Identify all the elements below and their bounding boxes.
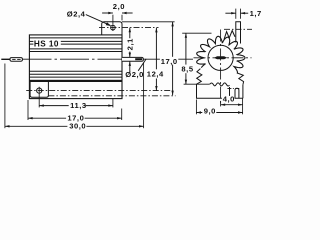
svg-text:Ø2,4: Ø2,4 bbox=[67, 10, 86, 19]
svg-text:12,4: 12,4 bbox=[147, 69, 164, 78]
vertical centerline bbox=[220, 30, 222, 105]
dim 30,0 bottom bbox=[4, 64, 6, 129]
top tab bbox=[102, 22, 122, 35]
thick base band bbox=[29, 80, 122, 82]
fin lines bbox=[29, 37, 122, 39]
hole centerline A bbox=[26, 90, 172, 92]
dim 11,3 bbox=[38, 99, 40, 108]
resistor body outline (side view) bbox=[29, 35, 122, 99]
dim 17,0 vertical bbox=[172, 22, 174, 57]
finned profile teeth ring bbox=[197, 36, 245, 73]
bottom face bbox=[196, 97, 243, 99]
end view tab bbox=[236, 22, 241, 44]
right lead bbox=[122, 57, 143, 61]
mounting slot bbox=[235, 88, 239, 98]
dim 9,0 bbox=[195, 100, 197, 115]
end tab centerline bbox=[224, 28, 252, 30]
slot centerline bbox=[227, 87, 239, 89]
dim 17,0 bottom bbox=[27, 100, 29, 120]
svg-text:HS 10: HS 10 bbox=[34, 40, 59, 49]
left lower teeth wedge bbox=[197, 69, 202, 85]
svg-text:4,0: 4,0 bbox=[223, 95, 235, 104]
svg-text:9,0: 9,0 bbox=[204, 107, 216, 116]
mounting pocket bbox=[30, 82, 48, 97]
svg-text:Ø2,0: Ø2,0 bbox=[125, 70, 144, 79]
core circle bbox=[208, 45, 233, 70]
tall fins near tab bbox=[224, 31, 235, 40]
svg-text:2,0: 2,0 bbox=[113, 2, 125, 11]
svg-text:1,7: 1,7 bbox=[250, 9, 262, 18]
fin lines beside label bbox=[29, 40, 33, 42]
svg-text:17,0: 17,0 bbox=[161, 57, 178, 66]
right lower teeth wedge bbox=[237, 73, 244, 85]
horizontal centerline (end view) bbox=[194, 57, 252, 59]
dim 4,0 bbox=[222, 96, 235, 103]
dim 2,1 rotated bbox=[129, 28, 131, 39]
dim 8,5 bbox=[182, 32, 211, 34]
tab hole centerline bbox=[99, 27, 159, 29]
main axis centerline bbox=[23, 58, 194, 60]
svg-text:11,3: 11,3 bbox=[70, 101, 87, 110]
mounting hole left view bbox=[37, 88, 42, 93]
dim 12,4 bbox=[155, 28, 157, 70]
base plane centerline B bbox=[48, 95, 175, 97]
tab top extension bbox=[122, 21, 175, 23]
tab hole bbox=[111, 25, 116, 30]
dim dia 2,0 lead bbox=[129, 61, 131, 73]
right foot bbox=[229, 87, 231, 98]
crimp sleeve bbox=[10, 58, 22, 62]
left foot bbox=[196, 84, 198, 98]
svg-text:2,1: 2,1 bbox=[126, 38, 135, 50]
svg-text:30,0: 30,0 bbox=[69, 122, 86, 131]
center element bar bbox=[214, 56, 227, 59]
bottom teeth between feet bbox=[210, 83, 230, 86]
left lead wire bbox=[1, 59, 10, 60]
svg-text:8,5: 8,5 bbox=[181, 64, 193, 73]
